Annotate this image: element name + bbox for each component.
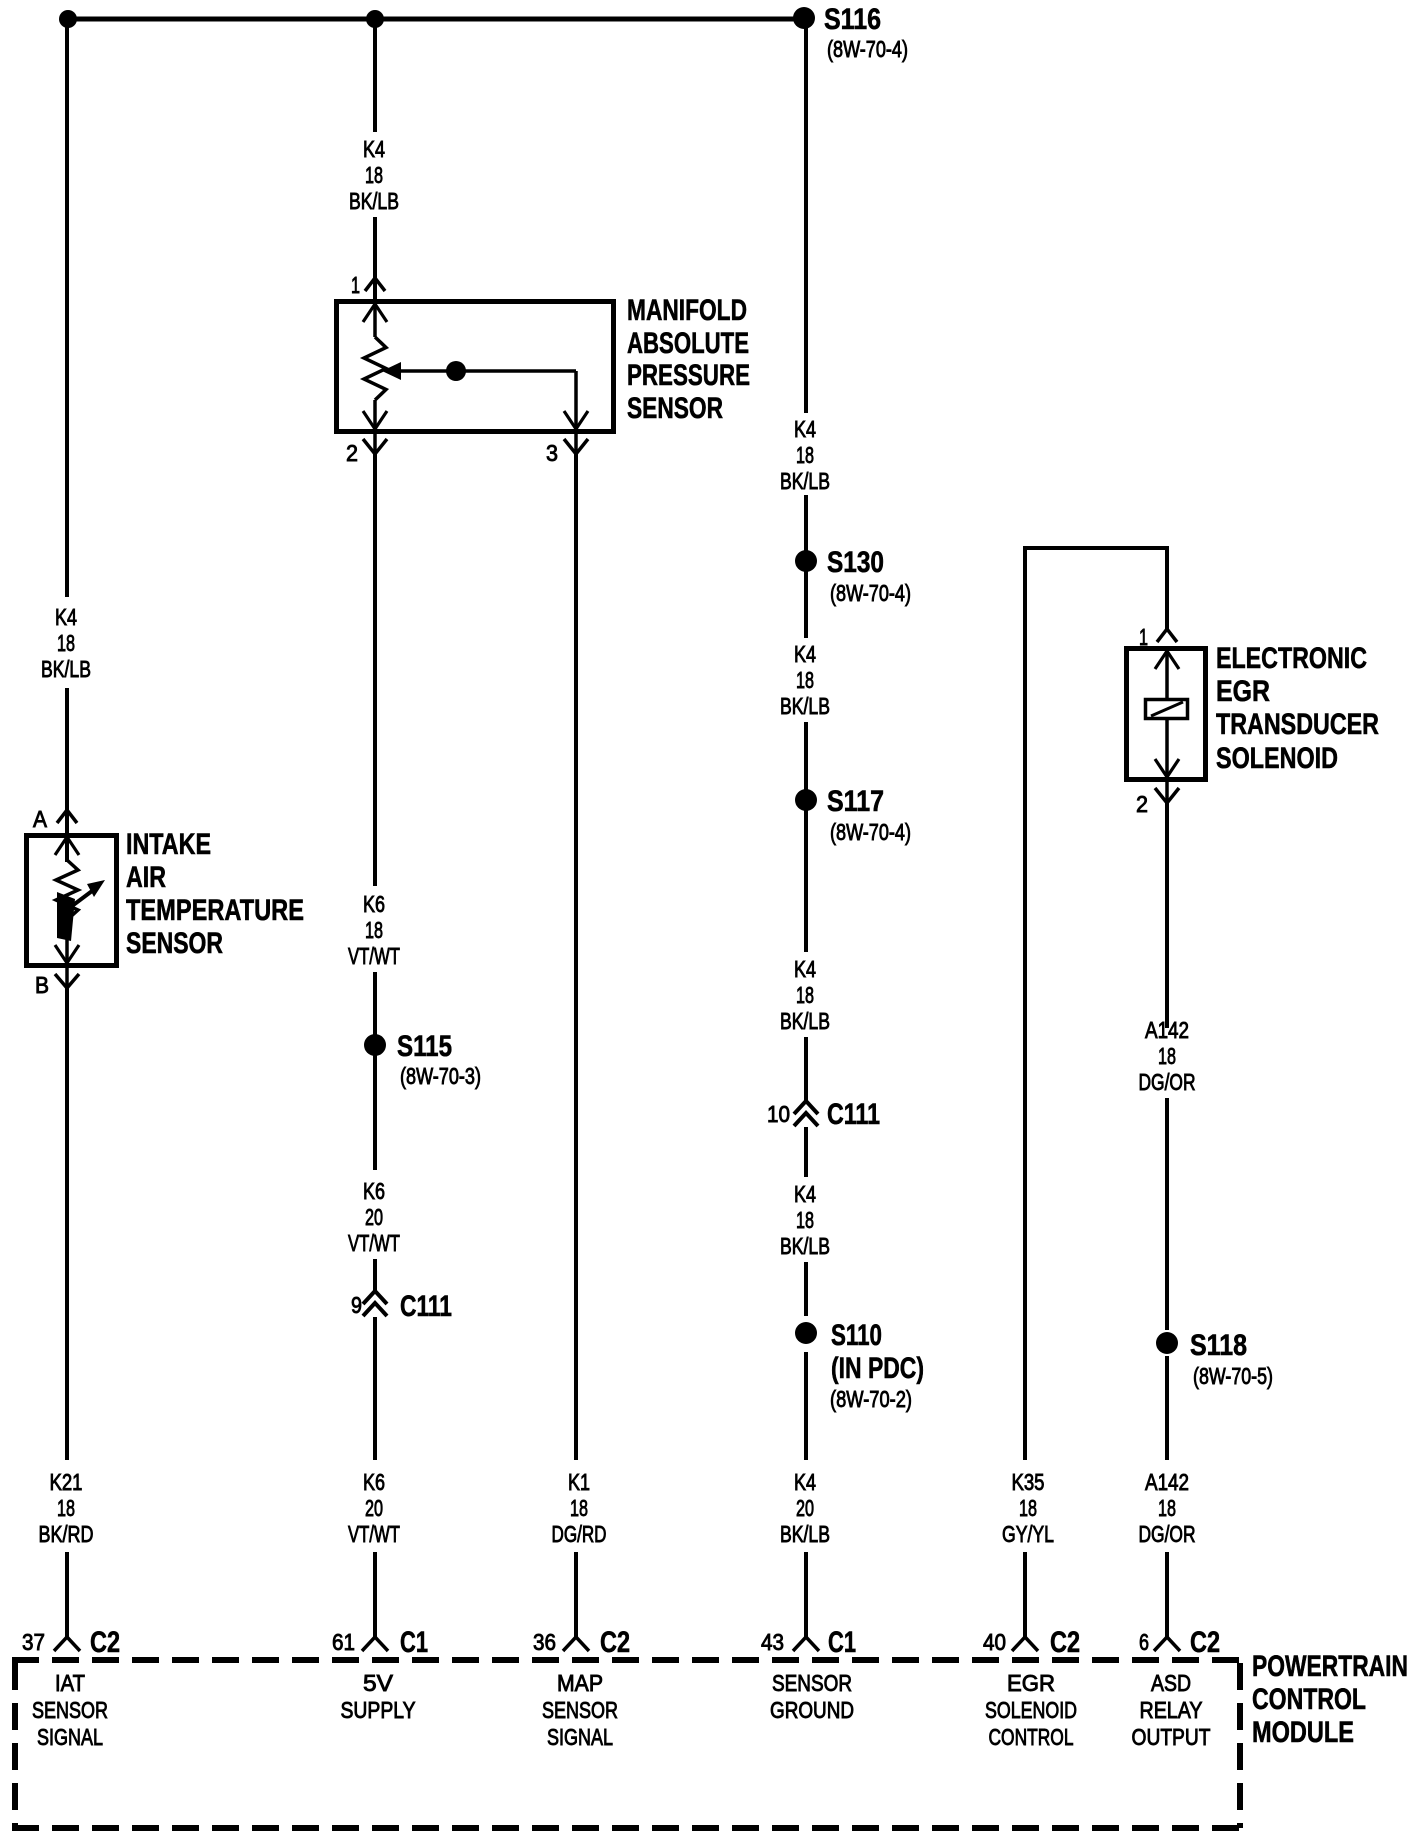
label: splice S118 name (1190, 1329, 1247, 1362)
splice S116 junction dot (793, 7, 815, 29)
connector: female Y at EGR pin 2 (1155, 788, 1179, 803)
value label: K4 18 BK/LB (left branch) (41, 604, 91, 682)
label: PCM connector C1 (pin 43) (828, 1626, 856, 1659)
label: connector C111 name (pin 9) (400, 1290, 452, 1323)
svg-text:18: 18 (365, 917, 383, 943)
svg-text:61: 61 (332, 1629, 355, 1655)
wire: K4 to splice S110 (804, 1262, 808, 1316)
svg-text:C2: C2 (600, 1626, 630, 1659)
value label: K35 18 GY/YL (1002, 1469, 1054, 1547)
value label: K4 18 BK/LB (below S116) (780, 416, 830, 494)
svg-text:DG/RD: DG/RD (552, 1521, 607, 1547)
label: splice S115 name (397, 1030, 452, 1063)
svg-text:10: 10 (767, 1101, 790, 1127)
wire: K4 18 BK/LB from label to IAT pin A (65, 688, 69, 862)
connector: female Y at PCM pin 6 (1154, 1637, 1180, 1651)
wiper arrow head on potentiometer (382, 362, 401, 380)
module outline: PCM dashed box top edge (12, 1657, 1240, 1663)
arrow: pin B arrowhead inside IAT box pointing down (55, 945, 79, 963)
component name: INTAKE AIR TEMPERATURE SENSOR (126, 828, 304, 960)
arrow: arrowhead to EGR pin 2 pointing down (1155, 759, 1179, 777)
connector: male chevron at IAT pin A (57, 810, 77, 823)
pin label: 6 (PCM cavity) (1139, 1629, 1149, 1655)
wire: from link down to EGR solenoid pin 1 (1165, 546, 1169, 629)
net label: ASD RELAY OUTPUT (pin 6) (1132, 1670, 1211, 1750)
pin label: 10 (C111 cavity) (767, 1101, 790, 1127)
component box: electronic EGR transducer solenoid (1127, 649, 1206, 780)
svg-text:K4: K4 (794, 956, 816, 982)
svg-text:K4: K4 (794, 1469, 816, 1495)
svg-text:DG/OR: DG/OR (1139, 1069, 1196, 1095)
svg-text:BK/LB: BK/LB (780, 1008, 830, 1034)
connector C111 double chevron (pin 10) (794, 1101, 818, 1126)
svg-text:18: 18 (365, 162, 383, 188)
value label: K6 18 VT/WT (348, 891, 400, 969)
connector: female Y at MAP pin 2 (363, 439, 387, 454)
wire: potentiometer lead to pin 2 (373, 400, 377, 450)
svg-text:ABSOLUTE: ABSOLUTE (627, 327, 749, 360)
svg-text:DG/OR: DG/OR (1139, 1521, 1196, 1547)
splice S130 junction dot (795, 550, 817, 572)
label: S117 reference (8W-70-4) (830, 819, 911, 845)
module name: POWERTRAIN CONTROL MODULE (1252, 1650, 1408, 1749)
svg-text:A142: A142 (1145, 1017, 1189, 1043)
component name: MANIFOLD ABSOLUTE PRESSURE SENSOR (627, 294, 750, 425)
svg-text:SOLENOID: SOLENOID (1216, 742, 1338, 775)
component box: manifold absolute pressure sensor (337, 302, 614, 432)
label: S110 reference (8W-70-2) (830, 1386, 912, 1412)
svg-text:S118: S118 (1190, 1329, 1247, 1362)
label: S116 reference (8W-70-4) (827, 36, 908, 62)
svg-text:GY/YL: GY/YL (1002, 1521, 1054, 1547)
wire: K6 20 VT/WT from label to PCM pin 61 (373, 1552, 377, 1637)
label: S110 location (IN PDC) (831, 1352, 924, 1385)
svg-text:BK/RD: BK/RD (39, 1521, 94, 1547)
svg-text:C1: C1 (400, 1626, 428, 1659)
arrow: pin 1 arrowhead inside MAP box (363, 304, 387, 322)
svg-text:5V: 5V (363, 1670, 394, 1696)
label: splice S130 name (827, 546, 884, 579)
pin label: 40 (PCM cavity) (983, 1629, 1006, 1655)
svg-text:(8W-70-4): (8W-70-4) (830, 819, 911, 845)
wire: solenoid coil lead to EGR pin 2 (1165, 719, 1169, 800)
svg-text:K35: K35 (1012, 1469, 1045, 1495)
wire: K21 18 BK/RD from label to PCM pin 37 (65, 1552, 69, 1637)
component name: ELECTRONIC EGR TRANSDUCER SOLENOID (1216, 642, 1379, 775)
label: S130 reference (8W-70-4) (830, 580, 911, 606)
svg-text:18: 18 (57, 1495, 75, 1521)
svg-text:SENSOR: SENSOR (627, 392, 723, 425)
label: splice S116 name (824, 3, 881, 36)
value label: K6 20 VT/WT (above C111) (348, 1178, 400, 1256)
svg-text:GROUND: GROUND (770, 1697, 854, 1723)
pin label: 1 (EGR solenoid pin 1) (1139, 624, 1148, 650)
connector C111 double chevron (pin 9) (363, 1291, 387, 1316)
wire: K4 18 BK/LB through splice S117 (804, 722, 808, 952)
label: connector C111 name (pin 10) (827, 1098, 880, 1131)
wire: A142 18 DG/OR from label to PCM pin 6 (1165, 1552, 1169, 1637)
svg-text:VT/WT: VT/WT (348, 1521, 400, 1547)
wire: K35 18 GY/YL from label to PCM pin 40 (1023, 1552, 1027, 1637)
svg-text:36: 36 (533, 1629, 556, 1655)
svg-text:INTAKE: INTAKE (126, 828, 211, 861)
svg-text:C1: C1 (828, 1626, 856, 1659)
svg-text:B: B (35, 972, 49, 998)
svg-text:SENSOR: SENSOR (32, 1697, 108, 1723)
svg-text:EGR: EGR (1007, 1670, 1055, 1696)
svg-text:K4: K4 (794, 641, 816, 667)
thermistor arrow tail wedge (solid) (57, 892, 75, 941)
label: S115 reference (8W-70-3) (400, 1063, 481, 1089)
svg-text:SUPPLY: SUPPLY (341, 1697, 416, 1723)
svg-text:BK/LB: BK/LB (780, 1521, 830, 1547)
wire: K6 20 VT/WT from C111 down to label (373, 1317, 377, 1460)
svg-text:MAP: MAP (557, 1670, 603, 1696)
svg-text:CONTROL: CONTROL (989, 1724, 1074, 1750)
svg-text:K4: K4 (363, 136, 385, 162)
net label: MAP SENSOR SIGNAL (pin 36) (542, 1670, 618, 1750)
svg-text:VT/WT: VT/WT (348, 1230, 400, 1256)
net label: EGR SOLENOID CONTROL (pin 40) (985, 1670, 1077, 1750)
connector: female Y at PCM pin 61 (362, 1637, 388, 1651)
label: S118 reference (8W-70-5) (1193, 1363, 1273, 1389)
wire: K1 18 DG/RD from label to PCM pin 36 (574, 1552, 578, 1637)
pin label: 2 (MAP sensor pin 2) (346, 440, 358, 466)
wire: K1 18 DG/RD from MAP pin 3 down to label (574, 450, 578, 1460)
svg-text:S130: S130 (827, 546, 884, 579)
label: PCM connector C2 (pin 6) (1190, 1626, 1220, 1659)
value label: K4 18 BK/LB (below S130) (780, 641, 830, 719)
svg-text:MANIFOLD: MANIFOLD (627, 294, 747, 327)
wire: K4 18 BK/LB from C111 down to label (804, 1127, 808, 1177)
potentiometer R (MAP element) zigzag (364, 337, 386, 400)
pin label: 61 (PCM cavity) (332, 1629, 355, 1655)
svg-text:TEMPERATURE: TEMPERATURE (126, 894, 304, 927)
pin label: 2 (EGR solenoid pin 2) (1136, 791, 1148, 817)
svg-text:A142: A142 (1145, 1469, 1189, 1495)
wire: sensor-ground top bus from IAT branch to splice S116 (66, 17, 806, 22)
svg-text:OUTPUT: OUTPUT (1132, 1724, 1211, 1750)
wire: K6 18 VT/WT from MAP pin 2 down to label (373, 450, 377, 886)
module outline: PCM dashed box bottom edge (12, 1825, 1240, 1831)
svg-text:18: 18 (57, 630, 75, 656)
svg-text:18: 18 (1158, 1495, 1176, 1521)
wire: K4 18 BK/LB from splice S116 down to label (804, 19, 808, 413)
connector: female Y at MAP pin 3 (564, 439, 588, 454)
wire: K6 20 VT/WT from label to connector C111 pin 9 (373, 1259, 377, 1291)
value label: K4 18 BK/LB (above S110) (780, 1181, 830, 1259)
svg-text:C2: C2 (1050, 1626, 1080, 1659)
splice S117 junction dot (795, 789, 817, 811)
wire: K4 18 BK/LB from top bus down to label (left branch) (65, 19, 69, 597)
svg-text:(8W-70-4): (8W-70-4) (827, 36, 908, 62)
label: PCM connector C2 (pin 36) (600, 1626, 630, 1659)
svg-text:A: A (33, 806, 48, 832)
value label: K4 18 BK/LB (below S117) (780, 956, 830, 1034)
svg-text:K4: K4 (794, 1181, 816, 1207)
pin label: 9 (C111 cavity) (351, 1292, 362, 1318)
component box: intake air temperature sensor (27, 836, 117, 966)
wire: K35 18 GY/YL from link down to label (1023, 546, 1027, 1460)
wire: K4 18 BK/LB from top bus down to label (MAP branch) (373, 19, 377, 132)
label: splice S117 name (827, 785, 884, 818)
svg-text:SOLENOID: SOLENOID (985, 1697, 1077, 1723)
wire: K4 20 BK/LB from label to PCM pin 43 (804, 1552, 808, 1637)
svg-text:(IN PDC): (IN PDC) (831, 1352, 924, 1385)
module outline: PCM dashed box right edge (1237, 1663, 1243, 1828)
label: PCM connector C1 (pin 61) (400, 1626, 428, 1659)
svg-text:43: 43 (761, 1629, 784, 1655)
pin label: 1 (MAP sensor pin 1) (351, 272, 360, 298)
value label: K4 20 BK/LB (780, 1469, 830, 1547)
wire: K21 18 BK/RD from IAT pin B down to label (65, 986, 69, 1460)
svg-text:BK/LB: BK/LB (780, 468, 830, 494)
connector: female Y at PCM pin 40 (1012, 1637, 1038, 1651)
svg-text:20: 20 (365, 1204, 383, 1230)
wire: MAP pin1 lead into potentiometer (373, 304, 377, 337)
connector: female Y at PCM pin 37 (54, 1637, 80, 1651)
svg-text:K6: K6 (363, 891, 385, 917)
svg-text:6: 6 (1139, 1629, 1149, 1655)
connector: female Y at PCM pin 43 (793, 1637, 819, 1651)
wire: wiper horizontal lead (398, 369, 576, 373)
svg-text:SENSOR: SENSOR (542, 1697, 618, 1723)
arrow: arrowhead to MAP pin 3 pointing down (564, 411, 588, 429)
value label: K6 20 VT/WT (above PCM) (348, 1469, 400, 1547)
splice S110 junction dot (795, 1322, 817, 1344)
svg-text:K21: K21 (50, 1469, 83, 1495)
svg-text:(8W-70-5): (8W-70-5) (1193, 1363, 1273, 1389)
pin label: 37 (PCM cavity) (22, 1629, 45, 1655)
svg-text:18: 18 (796, 982, 814, 1008)
arrow: pin 1 arrowhead inside EGR box (1155, 651, 1179, 669)
value label: K1 18 DG/RD (552, 1469, 607, 1547)
label: PCM connector C2 (pin 37) (90, 1626, 120, 1659)
svg-text:C111: C111 (400, 1290, 452, 1323)
svg-text:SENSOR: SENSOR (772, 1670, 852, 1696)
svg-text:PRESSURE: PRESSURE (627, 359, 750, 392)
svg-text:37: 37 (22, 1629, 45, 1655)
svg-text:(8W-70-4): (8W-70-4) (830, 580, 911, 606)
svg-text:C2: C2 (1190, 1626, 1220, 1659)
svg-text:40: 40 (983, 1629, 1006, 1655)
svg-text:SENSOR: SENSOR (126, 927, 223, 960)
svg-text:K6: K6 (363, 1469, 385, 1495)
svg-text:TRANSDUCER: TRANSDUCER (1216, 708, 1379, 741)
wire: horizontal link from EGR control branch to EGR solenoid pin 1 (1025, 546, 1167, 550)
wire: wiper lead down to MAP pin 3 (574, 371, 578, 450)
svg-text:ASD: ASD (1151, 1670, 1191, 1696)
arrow: pin A feed arrowhead inside IAT box (55, 837, 79, 855)
arrow: arrowhead to MAP pin 2 pointing down (363, 411, 387, 429)
svg-text:SIGNAL: SIGNAL (547, 1724, 613, 1750)
svg-text:SIGNAL: SIGNAL (37, 1724, 103, 1750)
connector: female Y at PCM pin 36 (563, 1637, 589, 1651)
wire: IAT element lead to pin B (65, 918, 69, 986)
wire: EGR pin 1 lead to solenoid coil (1165, 651, 1169, 698)
svg-text:18: 18 (1019, 1495, 1037, 1521)
svg-text:CONTROL: CONTROL (1252, 1683, 1366, 1716)
svg-text:EGR: EGR (1216, 675, 1270, 708)
svg-text:RELAY: RELAY (1140, 1697, 1203, 1723)
svg-text:BK/LB: BK/LB (349, 188, 399, 214)
svg-text:(8W-70-3): (8W-70-3) (400, 1063, 481, 1089)
connector: female Y at IAT pin B (55, 974, 79, 988)
svg-text:K1: K1 (568, 1469, 590, 1495)
node: junction dot at MAP branch (x=375) (366, 10, 384, 28)
wire: K6 from label through splice S115 (373, 972, 377, 1170)
splice S118 junction dot (1156, 1332, 1178, 1354)
wire: from label to MAP sensor pin 1 (373, 217, 377, 302)
value label: A142 18 DG/OR (above PCM) (1139, 1469, 1196, 1547)
label: PCM connector C2 (pin 40) (1050, 1626, 1080, 1659)
svg-text:20: 20 (365, 1495, 383, 1521)
svg-text:BK/LB: BK/LB (780, 1233, 830, 1259)
svg-text:ELECTRONIC: ELECTRONIC (1216, 642, 1367, 675)
connector: male chevron at EGR pin 1 (1157, 629, 1177, 642)
wire: A142 18 DG/OR from EGR pin 2 down to label (1165, 800, 1169, 1028)
thermistor R (IAT) zigzag element (56, 860, 78, 920)
svg-text:AIR: AIR (126, 861, 166, 894)
connector: male chevron at MAP pin 1 (365, 278, 385, 291)
node: junction dot at IAT branch (x=68) (59, 10, 77, 28)
svg-text:2: 2 (346, 440, 358, 466)
svg-text:1: 1 (351, 272, 360, 298)
svg-text:18: 18 (796, 1207, 814, 1233)
svg-text:IAT: IAT (55, 1670, 85, 1696)
svg-text:18: 18 (796, 667, 814, 693)
svg-text:K4: K4 (55, 604, 77, 630)
wire: A142 from S118 down to label (1165, 1356, 1169, 1460)
svg-text:18: 18 (570, 1495, 588, 1521)
thermistor arrow shaft across IAT element (64, 888, 96, 912)
wire: K4 18 BK/LB from label to connector C111 pin 10 (804, 1037, 808, 1101)
svg-text:MODULE: MODULE (1252, 1716, 1354, 1749)
svg-text:9: 9 (351, 1292, 362, 1318)
value label: K21 18 BK/RD (39, 1469, 94, 1547)
svg-text:C111: C111 (827, 1098, 880, 1131)
svg-text:VT/WT: VT/WT (348, 943, 400, 969)
module outline: PCM dashed box left edge (12, 1663, 18, 1828)
svg-text:3: 3 (546, 440, 558, 466)
pin label: 43 (PCM cavity) (761, 1629, 784, 1655)
svg-text:(8W-70-2): (8W-70-2) (830, 1386, 912, 1412)
svg-text:K4: K4 (794, 416, 816, 442)
wire: K4 18 BK/LB through splice S130 (804, 495, 808, 638)
pin label: 3 (MAP sensor pin 3) (546, 440, 558, 466)
wire: K4 20 BK/LB from S110 down to label (804, 1352, 808, 1460)
svg-text:BK/LB: BK/LB (780, 693, 830, 719)
label: splice S110 name (831, 1319, 882, 1352)
svg-text:C2: C2 (90, 1626, 120, 1659)
svg-text:POWERTRAIN: POWERTRAIN (1252, 1650, 1408, 1683)
svg-text:2: 2 (1136, 791, 1148, 817)
pin label: B (IAT sensor pin B) (35, 972, 49, 998)
pin label: A (IAT sensor pin A) (33, 806, 48, 832)
net label: IAT SENSOR SIGNAL (pin 37) (32, 1670, 108, 1750)
pin label: 36 (PCM cavity) (533, 1629, 556, 1655)
svg-text:S115: S115 (397, 1030, 452, 1063)
splice S115 junction dot (364, 1034, 386, 1056)
svg-text:S116: S116 (824, 3, 881, 36)
value label: A142 18 DG/OR (upper) (1139, 1017, 1196, 1095)
wire: A142 to splice S118 (1165, 1098, 1169, 1330)
solenoid L (EGR coil) box symbol (1146, 700, 1188, 719)
net label: 5V SUPPLY (pin 61) (341, 1670, 416, 1723)
svg-text:18: 18 (1158, 1043, 1176, 1069)
net label: SENSOR GROUND (pin 43) (770, 1670, 854, 1723)
thermistor arrow head (pointing up-right) (87, 880, 105, 897)
svg-text:BK/LB: BK/LB (41, 656, 91, 682)
svg-text:K6: K6 (363, 1178, 385, 1204)
svg-text:S117: S117 (827, 785, 884, 818)
value label: K4 18 BK/LB (MAP branch) (349, 136, 399, 214)
node: junction dot on wiper lead (446, 361, 466, 381)
svg-text:18: 18 (796, 442, 814, 468)
svg-text:20: 20 (796, 1495, 814, 1521)
svg-text:S110: S110 (831, 1319, 882, 1352)
